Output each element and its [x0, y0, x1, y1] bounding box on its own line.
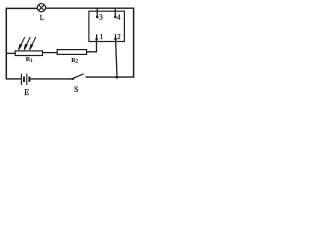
svg-text:2: 2 [117, 34, 121, 41]
svg-text:E: E [24, 88, 29, 97]
terminal 4 [114, 16, 117, 19]
junction node on bottom wire [116, 76, 119, 79]
lamp L [37, 4, 45, 22]
switch S [71, 74, 83, 94]
wire from terminal 2 down to bottom wire [116, 39, 117, 77]
wire top-left horizontal from left corner to lamp [6, 7, 38, 9]
wire right vertical [133, 8, 135, 78]
svg-text:3: 3 [99, 13, 103, 22]
wire top horizontal from lamp to top-right corner [46, 7, 135, 9]
svg-text:1: 1 [30, 59, 33, 64]
black box [89, 11, 125, 41]
resistor R2 [57, 50, 86, 65]
terminal 3 [96, 16, 99, 19]
svg-text:L: L [40, 14, 44, 22]
svg-text:1: 1 [100, 34, 103, 41]
wire left vertical [5, 8, 7, 80]
wire drop to terminal 4 [114, 8, 116, 17]
battery E [21, 74, 29, 85]
wire bottom-left corner to battery [6, 78, 22, 80]
wire between R1 and R2 [43, 52, 58, 54]
wire battery to switch [29, 78, 72, 80]
terminal 1 [96, 34, 98, 39]
wire middle row from left wire to R1 [6, 52, 16, 54]
wire drop to terminal 3 [96, 8, 98, 17]
wire from terminal 1 down and left to R2 [87, 39, 97, 52]
light arrows onto R1 [19, 37, 36, 50]
wire switch to bottom-right corner [86, 76, 135, 78]
terminal 2 [115, 34, 117, 39]
svg-text:2: 2 [76, 60, 79, 65]
svg-text:4: 4 [117, 13, 121, 22]
resistor R1 (photoresistor) [15, 51, 42, 64]
svg-text:S: S [74, 85, 78, 94]
